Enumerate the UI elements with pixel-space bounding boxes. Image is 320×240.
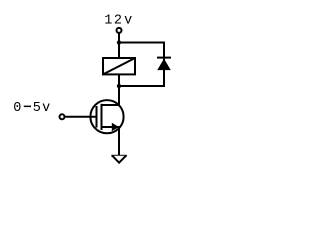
relay K1 diagonal xyxy=(103,58,135,74)
node 0-5V label hyphen xyxy=(24,106,31,108)
terminal 0-5V input xyxy=(60,114,65,119)
transistor Q1 source lead xyxy=(102,127,120,156)
ground xyxy=(111,155,126,157)
wire relay bottom to junction xyxy=(118,74,120,86)
transistor Q1 channel bar xyxy=(101,104,103,130)
terminal 12V xyxy=(117,28,122,33)
svg-text:12v: 12v xyxy=(104,13,132,28)
svg-text:05v: 05v xyxy=(13,101,50,116)
wire junction to MOSFET drain xyxy=(118,86,120,105)
wire 12V terminal to junction xyxy=(118,33,120,58)
transistor Q1 gate bar xyxy=(96,106,98,128)
wire diode branch vertical xyxy=(163,42,165,88)
junction top xyxy=(117,40,121,44)
transistor Q1 source arrow xyxy=(112,123,119,131)
wire bottom horizontal from diode branch to junction xyxy=(119,85,164,87)
transistor Q1 drain lead xyxy=(102,86,120,105)
diode D1 cathode bar xyxy=(157,57,171,59)
junction bottom xyxy=(117,84,121,88)
transistor Q1 body circle xyxy=(90,100,123,133)
wire gate lead xyxy=(65,116,97,118)
diode D1 anode triangle xyxy=(157,59,171,71)
wire top horizontal to diode branch xyxy=(119,42,165,44)
relay K1 coil box xyxy=(103,58,135,74)
